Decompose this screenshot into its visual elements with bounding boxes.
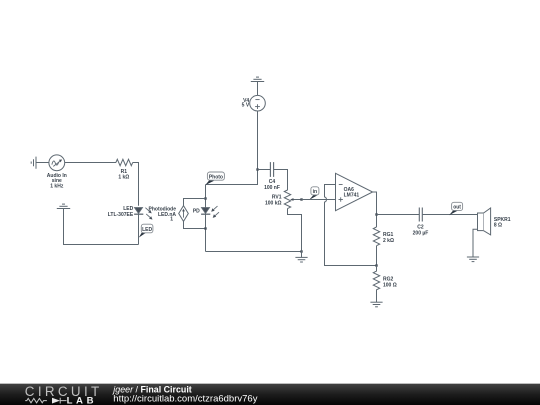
- wire: [205, 214, 207, 251]
- wire: [184, 199, 206, 206]
- flag out: [449, 202, 463, 215]
- svg-text:LM741: LM741: [344, 193, 360, 199]
- svg-text:100 nF: 100 nF: [264, 185, 280, 191]
- svg-text:in: in: [313, 189, 317, 195]
- label V4 / 5 V: [242, 98, 250, 109]
- ground (photodiode loop): [295, 252, 307, 263]
- wire: [288, 209, 302, 252]
- label OA6 / LM741: [344, 187, 360, 199]
- wire: [65, 162, 116, 164]
- wire: [205, 185, 207, 208]
- voltage source V_AudioIn (sine): [49, 155, 65, 171]
- resistor R1: [116, 159, 133, 165]
- wire: [184, 221, 206, 228]
- svg-text:100 kΩ: 100 kΩ: [265, 200, 282, 206]
- svg-text:LAB: LAB: [67, 396, 98, 405]
- flag in: [309, 187, 319, 200]
- capacitor C2: [419, 208, 422, 222]
- flag Photo: [205, 172, 224, 185]
- CircuitLab logo: [25, 384, 103, 405]
- label RV1 / 100 kOhm: [265, 194, 282, 206]
- junction: [300, 250, 302, 252]
- label SPKR1 / 8 Ohm: [494, 217, 511, 228]
- LED LED1 (LTL-307EE): [134, 208, 152, 220]
- photodiode PD: [201, 206, 219, 218]
- wire: [257, 82, 259, 96]
- resistor RG2: [373, 266, 379, 303]
- svg-text:PD: PD: [193, 209, 200, 215]
- svg-text:200 µF: 200 µF: [413, 231, 429, 237]
- ground (flipped, left loop): [57, 204, 70, 208]
- junction: [204, 197, 206, 199]
- junction: [204, 227, 206, 229]
- capacitor C4: [270, 162, 273, 177]
- resistor RG1: [373, 227, 379, 266]
- svg-text:8 Ω: 8 Ω: [494, 222, 502, 228]
- op-amp OA6 LM741: [336, 173, 373, 210]
- label RG1 / 2 kOhm: [383, 232, 394, 244]
- wire: [36, 162, 49, 164]
- flag LED: [139, 224, 153, 237]
- label Photodiode / LED.nA / 1: [149, 206, 177, 222]
- label C2 / 200 uF: [413, 225, 429, 237]
- speaker SPKR1: [478, 208, 491, 235]
- wire: [64, 209, 139, 245]
- wire (bottom of photodiode loop): [206, 251, 302, 253]
- label R1 / 1 kOhm: [118, 169, 129, 181]
- wire: [274, 170, 288, 191]
- footer bar: [0, 383, 540, 405]
- svg-text:100 Ω: 100 Ω: [383, 282, 397, 288]
- svg-text:1 kΩ: 1 kΩ: [118, 175, 129, 181]
- voltage source V4: [250, 95, 266, 111]
- svg-text:out: out: [453, 205, 461, 211]
- junction: [375, 213, 377, 215]
- wire (speaker to ground): [473, 229, 478, 257]
- junction: [300, 198, 302, 200]
- current source I1 (photocurrent CCCS diamond): [179, 206, 189, 222]
- label LED / LTL-307EE: [108, 206, 134, 218]
- wire: [206, 111, 258, 185]
- svg-text:LED.nA: LED.nA: [158, 212, 176, 218]
- wire (C2 to speaker): [423, 214, 478, 216]
- svg-text:1 kHz: 1 kHz: [50, 183, 64, 189]
- label Audio In / sine / 1 kHz: [47, 173, 67, 190]
- wire: [138, 214, 140, 244]
- wire (output to C2): [377, 214, 420, 216]
- wire (feedback: - input down to RG junction): [325, 185, 377, 266]
- svg-text:http://circuitlab.com/ctzra6db: http://circuitlab.com/ctzra6dbrv76y: [113, 394, 257, 405]
- potentiometer RV1: [284, 190, 301, 209]
- wire: [133, 163, 139, 206]
- ground (V4, flipped): [251, 77, 264, 81]
- svg-text:Photo: Photo: [209, 174, 223, 180]
- svg-text:5 V: 5 V: [242, 103, 250, 109]
- svg-text:LTL-307EE: LTL-307EE: [108, 212, 134, 218]
- ground (RG2): [370, 302, 382, 307]
- ground (speaker): [467, 257, 479, 262]
- wire (wiper to op-amp + input, with hop): [302, 199, 336, 201]
- ground (audio input, rotated left): [31, 157, 36, 169]
- junction: [256, 168, 258, 170]
- junction: [375, 264, 377, 266]
- svg-text:1: 1: [170, 217, 173, 223]
- wire (op-amp output): [373, 192, 377, 227]
- label RG2 / 100 Ohm: [383, 276, 397, 288]
- svg-text:LED: LED: [142, 227, 152, 233]
- wire: [258, 169, 271, 171]
- label C4 / 100 nF: [264, 179, 280, 191]
- svg-text:2 kΩ: 2 kΩ: [383, 238, 394, 244]
